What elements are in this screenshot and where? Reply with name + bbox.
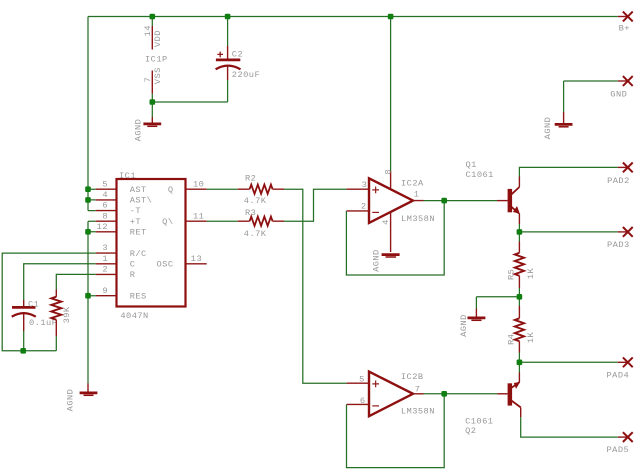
svg-text:GND: GND (610, 90, 627, 100)
resistor R1 39K (51, 290, 72, 337)
wire R net pin2 to R1 (56, 274, 95, 289)
svg-text:AGND: AGND (459, 314, 469, 337)
ground AGND below IC1P (134, 117, 162, 141)
wire IC1P VDD stub from rail (151, 17, 153, 27)
junction IC2A output (441, 198, 447, 204)
svg-text:VDD: VDD (153, 30, 163, 47)
svg-text:Q: Q (168, 185, 174, 195)
svg-text:11: 11 (193, 211, 204, 221)
wire C net pin1 to C1 (24, 264, 96, 300)
wire pin10 Q to R2 (207, 188, 238, 190)
svg-text:1K: 1K (526, 268, 536, 280)
svg-text:1: 1 (102, 254, 108, 264)
svg-text:8: 8 (383, 169, 393, 175)
pad PAD2 (607, 163, 633, 186)
pad PAD5 (607, 432, 633, 455)
pad PAD3 (607, 227, 633, 250)
wire +T/RET/RES ground rail (88, 221, 96, 383)
svg-text:7: 7 (143, 77, 153, 83)
svg-text:Q2: Q2 (465, 426, 476, 436)
wire Q2 emitter to PAD5 (521, 417, 618, 437)
transistor Q2 C1061 (465, 373, 521, 437)
svg-text:220uF: 220uF (232, 70, 260, 80)
svg-text:PAD4: PAD4 (607, 371, 630, 381)
resistor R4 1K (507, 306, 536, 353)
svg-text:VSS: VSS (153, 67, 163, 84)
svg-text:4047N: 4047N (120, 311, 148, 321)
svg-text:10: 10 (193, 179, 204, 189)
svg-text:C1061: C1061 (466, 170, 494, 180)
wire R4 bottom link to PAD4 node (519, 353, 617, 363)
svg-text:12: 12 (97, 222, 108, 232)
junction pin5 row (85, 186, 91, 192)
pad B+ (618, 12, 633, 34)
svg-text:Q1: Q1 (466, 160, 477, 170)
wire VSS node: IC1P pin7 to AGND and C2 bottom (152, 80, 227, 117)
wire IC2A output to Q1 base (424, 200, 498, 202)
junction top rail at IC1P (150, 14, 156, 20)
wire IC2A feedback loop (346, 201, 444, 275)
wire GND pad to AGND (564, 81, 618, 112)
svg-text:-T: -T (130, 206, 141, 216)
svg-text:2: 2 (361, 202, 367, 212)
junction Q1 emitter / PAD3 / R5 (517, 229, 523, 235)
junction pin12 row (85, 229, 91, 235)
svg-text:C1: C1 (28, 300, 39, 310)
wire C2 top from rail (227, 17, 229, 47)
wire R3 to IC2A pin3 (284, 189, 347, 221)
svg-text:C: C (130, 260, 136, 270)
svg-text:AST: AST (130, 185, 147, 195)
junction top rail at IC2A riser (388, 14, 394, 20)
svg-text:4.7K: 4.7K (244, 196, 267, 206)
svg-text:Q\: Q\ (162, 217, 173, 227)
wire R5 bottom link (518, 288, 520, 297)
pad GND (610, 76, 632, 99)
svg-text:AGND: AGND (543, 117, 553, 140)
svg-text:6: 6 (360, 396, 366, 406)
svg-text:AGND: AGND (372, 249, 382, 272)
transistor Q1 C1061 (466, 160, 520, 224)
svg-text:R5: R5 (507, 269, 517, 280)
wire IC2B feedback loop (347, 394, 445, 468)
svg-text:RET: RET (130, 228, 147, 238)
svg-text:8: 8 (102, 211, 108, 221)
svg-text:14: 14 (143, 25, 153, 36)
junction R5/R4/AGND (517, 294, 523, 300)
wire Q1 collector to PAD2 (519, 167, 617, 176)
svg-text:R4: R4 (507, 334, 517, 345)
svg-text:IC2A: IC2A (401, 179, 424, 189)
junction R4/PAD4/Q2 (517, 360, 523, 366)
svg-text:2: 2 (102, 265, 108, 275)
wire R4 top link (518, 297, 520, 306)
pad PAD4 (607, 357, 633, 380)
svg-text:B+: B+ (619, 23, 630, 33)
wire R/C net pin3 loop (2, 253, 96, 351)
wire IC2B output to Q2 base (424, 393, 498, 395)
svg-text:LM358N: LM358N (401, 214, 435, 224)
svg-text:IC2B: IC2B (401, 372, 424, 382)
junction top rail at C2 (225, 14, 231, 20)
svg-text:5: 5 (102, 179, 108, 189)
svg-text:PAD2: PAD2 (607, 176, 630, 186)
svg-text:RES: RES (130, 291, 147, 301)
junction VSS node (150, 99, 156, 105)
wire top B+ rail (88, 16, 618, 18)
svg-text:R: R (130, 270, 136, 280)
IC1 right pins 10,11,13 (186, 189, 207, 264)
svg-text:AGND: AGND (134, 119, 144, 142)
ground AGND at IC2A pin4 (372, 249, 400, 272)
svg-text:1: 1 (414, 189, 420, 199)
ground AGND at R5/R4 node (459, 309, 485, 337)
svg-text:PAD5: PAD5 (607, 445, 630, 455)
svg-text:LM358N: LM358N (401, 407, 435, 417)
wire R2 to IC2B pin5 (284, 189, 347, 383)
junction C1 bottom node (20, 348, 26, 354)
wire R1 bottom to node (55, 336, 57, 351)
svg-text:39K: 39K (62, 306, 72, 323)
svg-text:PAD3: PAD3 (607, 240, 630, 250)
wire node to AGND near R5/R4 (476, 297, 519, 309)
op-amp IC2B LM358N (347, 372, 435, 417)
svg-text:R/C: R/C (130, 249, 147, 259)
junction pin4 row (85, 197, 91, 203)
svg-text:AST\: AST\ (130, 196, 153, 206)
resistor R3 4.7K (238, 208, 284, 239)
wire left VDD drop to pins 5/4/6 (88, 17, 96, 211)
svg-text:+T: +T (130, 217, 141, 227)
resistor R2 4.7K (238, 174, 284, 207)
svg-text:6: 6 (102, 201, 108, 211)
svg-text:C2: C2 (232, 50, 243, 60)
svg-text:C1061: C1061 (465, 416, 493, 426)
capacitor C1 0.1uF (12, 300, 58, 332)
svg-text:OSC: OSC (157, 260, 174, 270)
junction IC2B output (441, 391, 447, 397)
wire Q1 emitter to PAD3 node (519, 224, 617, 232)
svg-text:13: 13 (191, 254, 202, 264)
svg-text:IC1P: IC1P (145, 55, 168, 65)
capacitor C2 220uF (216, 46, 261, 80)
ground AGND below left rail (65, 384, 97, 412)
svg-text:5: 5 (359, 375, 365, 385)
svg-text:3: 3 (102, 243, 108, 253)
svg-text:7: 7 (415, 384, 421, 394)
junction pin9 row (85, 293, 91, 299)
ground AGND near GND pad (543, 112, 573, 139)
svg-text:IC1: IC1 (119, 171, 136, 181)
svg-text:AGND: AGND (65, 389, 75, 412)
svg-text:4.7K: 4.7K (244, 229, 267, 239)
wire Q2 collector link (518, 362, 520, 372)
svg-text:3: 3 (362, 180, 368, 190)
svg-text:9: 9 (102, 286, 108, 296)
power symbol IC1P pin 7 VSS (143, 67, 163, 94)
wire R5 top link (518, 232, 520, 242)
resistor R5 1K (507, 242, 536, 289)
IC U1 4047N box (117, 171, 186, 321)
wire IC2A pin8 riser from rail (390, 17, 392, 172)
op-amp IC2A LM358N (347, 169, 435, 252)
wire pin11 Q\ to R3 (207, 220, 238, 222)
svg-text:R2: R2 (245, 174, 256, 184)
svg-text:R3: R3 (245, 208, 256, 218)
svg-text:1K: 1K (526, 332, 536, 344)
power symbol IC1P pin 14 VDD (143, 25, 163, 49)
IC1 left pins 5,4,6,8,12,3,1,2,9 (96, 189, 117, 296)
svg-text:4: 4 (381, 219, 391, 225)
svg-text:4: 4 (102, 190, 108, 200)
wire C1 bottom to node (23, 331, 25, 351)
